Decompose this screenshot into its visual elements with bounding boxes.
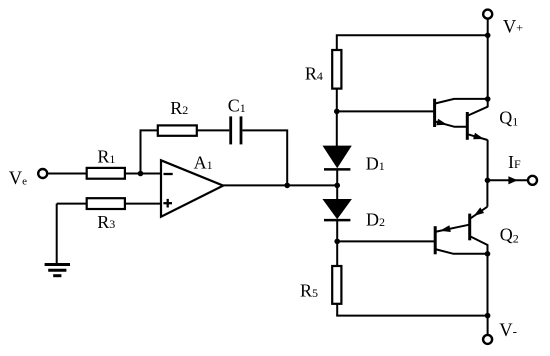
wire feedback left — [141, 130, 158, 173]
ground — [45, 265, 70, 276]
op-amp A1 — [161, 160, 223, 216]
wire — [47, 173, 86, 175]
resistor R2 — [158, 125, 197, 135]
terminal V+ — [483, 10, 492, 19]
resistor R1 — [87, 168, 125, 179]
node V- rail junction — [485, 313, 491, 319]
node inverting input junction — [138, 171, 144, 177]
wire — [336, 170, 338, 200]
node D2 R5 base junction — [334, 239, 340, 245]
wire V- rail — [336, 315, 487, 317]
resistor R3 — [87, 198, 125, 209]
op-amp plus pin — [163, 199, 172, 208]
wire — [336, 304, 338, 316]
wire op-amp output — [223, 184, 338, 186]
wire Q2 base — [337, 240, 435, 242]
node Q1 collector junction — [485, 96, 491, 102]
arrow IF — [508, 176, 517, 184]
wire Q2 emitter to output — [486, 180, 488, 206]
capacitor C1 — [231, 116, 241, 144]
diode D1 — [324, 146, 351, 169]
terminal V- — [483, 335, 492, 344]
terminal IF — [528, 176, 537, 185]
terminal Ve — [38, 169, 47, 178]
wire — [336, 89, 338, 147]
wire feedback right — [242, 130, 287, 185]
op-amp minus pin — [164, 173, 173, 175]
wire Q2 collector to V- rail — [487, 254, 489, 316]
node V+ rail junction — [485, 33, 491, 39]
transistor Q2 — [435, 207, 487, 255]
wire IF output — [488, 179, 528, 181]
wire Q1 emitter to output — [487, 140, 489, 181]
wire — [197, 129, 230, 131]
wire — [125, 203, 162, 205]
node diode chain junction — [334, 183, 340, 189]
wire — [487, 316, 489, 335]
node Q2 collector junction — [485, 251, 491, 257]
node output junction — [284, 183, 290, 189]
wire — [487, 19, 489, 36]
diode D2 — [324, 200, 351, 220]
wire Q1 base — [337, 110, 435, 112]
resistor R5 — [332, 266, 341, 304]
wire V+ rail — [337, 35, 488, 50]
wire noninverting input — [57, 203, 87, 205]
wire V+ stem — [487, 35, 489, 107]
node output IF junction — [485, 178, 491, 184]
transistor Q1 — [435, 99, 488, 140]
svg-text:V-: V- — [499, 321, 517, 341]
resistor R4 — [332, 50, 341, 89]
wire — [336, 220, 338, 267]
node R4 base junction — [334, 109, 340, 115]
wire to ground — [56, 204, 58, 265]
wire — [125, 173, 162, 175]
